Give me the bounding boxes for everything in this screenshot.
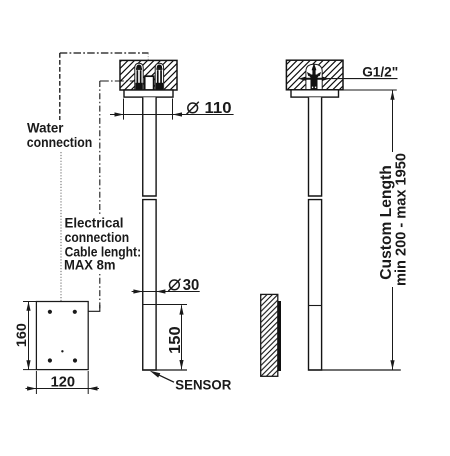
pipe lower section right bbox=[309, 200, 322, 370]
custom length extension bottom bbox=[309, 369, 401, 371]
dim Ø110 symbol bbox=[187, 102, 199, 114]
check valve left bbox=[135, 65, 142, 90]
swivel arrow diagonals bbox=[307, 72, 321, 78]
svg-text:SENSOR: SENSOR bbox=[175, 377, 231, 393]
dim 160 line bbox=[28, 302, 30, 370]
wall section (hatched) bbox=[261, 294, 278, 376]
screw top-right bbox=[73, 310, 77, 314]
clearance bell bbox=[306, 64, 322, 90]
clearance slot right valve bbox=[155, 63, 163, 90]
leader G1/2 bbox=[322, 78, 398, 80]
svg-text:120: 120 bbox=[51, 374, 76, 390]
dim Ø110 extension lines bbox=[123, 99, 125, 120]
sensor joint line right bbox=[309, 305, 322, 307]
wire: dotted line from label area to junction box bbox=[60, 152, 62, 301]
pipe bottom / tick bottom left view bbox=[142, 369, 187, 371]
ceiling block left (hatched) bbox=[120, 60, 177, 90]
pipe lower section left bbox=[143, 200, 156, 370]
svg-text:min 200 - max 1950: min 200 - max 1950 bbox=[393, 153, 410, 286]
swivel arrow horizontal bbox=[298, 77, 329, 81]
screw top-left bbox=[48, 310, 52, 314]
svg-text:G1/2": G1/2" bbox=[362, 64, 398, 80]
wire: electrical cable dash-dot vertical bbox=[99, 81, 101, 311]
wire: water supply dash line vertical drop to label bbox=[59, 53, 61, 120]
flange left bbox=[124, 90, 173, 97]
screw bottom-right bbox=[73, 358, 77, 362]
wire: electrical cable elbow into junction box bbox=[89, 305, 100, 311]
dim 160 arrows bbox=[26, 302, 30, 311]
dim Ø30 line bbox=[132, 291, 200, 293]
center hole bbox=[61, 350, 63, 352]
wire: electrical dash-dot horizontal into block bbox=[100, 80, 137, 82]
screw bottom-left bbox=[48, 358, 52, 362]
dim Ø110 arrows bbox=[115, 112, 124, 116]
dim custom length line bottom segment bbox=[392, 287, 394, 370]
dim custom length arrows bbox=[390, 91, 394, 100]
fitting body right bbox=[311, 63, 318, 90]
clearance slot left valve bbox=[135, 63, 143, 90]
flange right bbox=[291, 90, 339, 97]
sensor zone tick top bbox=[143, 304, 188, 306]
dim 120 arrows bbox=[27, 386, 36, 390]
pipe upper section right bbox=[309, 97, 322, 196]
dim 120 line bbox=[26, 388, 100, 390]
svg-text:160: 160 bbox=[14, 323, 29, 347]
dim 120 extension lines bbox=[35, 371, 37, 394]
spout coupling white rect bbox=[145, 76, 154, 90]
dim 160 ticks bbox=[23, 301, 36, 303]
pipe upper section left bbox=[143, 97, 156, 196]
svg-text:30: 30 bbox=[183, 277, 200, 294]
junction box bbox=[36, 302, 88, 370]
svg-text:110: 110 bbox=[205, 100, 232, 117]
wire: faint dotted connector to block top bbox=[147, 54, 149, 61]
dim custom length line top segment bbox=[392, 91, 394, 153]
svg-text:150: 150 bbox=[167, 326, 184, 354]
dim 150 line bbox=[181, 305, 183, 369]
sensor plate on wall bbox=[278, 301, 281, 371]
svg-text:connection: connection bbox=[27, 134, 93, 150]
check valve right bbox=[156, 65, 163, 90]
custom length extension top bbox=[343, 89, 397, 91]
dim Ø30 symbol bbox=[168, 279, 180, 291]
dim 150 arrows bbox=[179, 305, 183, 314]
dim Ø30 arrows bbox=[133, 289, 142, 293]
dim Ø110 line bbox=[110, 114, 234, 116]
leader SENSOR arrow bbox=[150, 371, 161, 378]
svg-text:MAX 8m: MAX 8m bbox=[64, 257, 116, 273]
label electrical connection backing bbox=[63, 216, 142, 275]
ceiling block right (hatched) bbox=[286, 60, 343, 90]
wire: water supply dash line horizontal bbox=[60, 52, 149, 54]
